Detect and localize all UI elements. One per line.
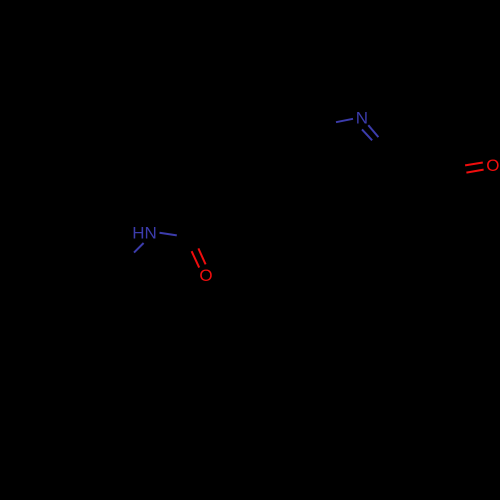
- svg-text:O: O: [199, 266, 212, 285]
- svg-text:N: N: [356, 109, 368, 128]
- svg-text:O: O: [486, 156, 499, 175]
- svg-text:HN: HN: [132, 224, 157, 243]
